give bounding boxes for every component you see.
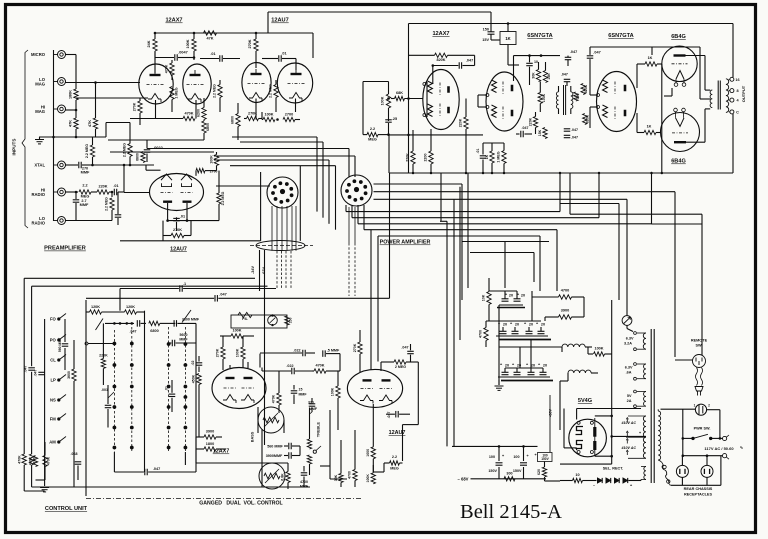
tube V7 grid (672, 63, 688, 65)
svg-text:BASS: BASS (251, 431, 255, 442)
wire V7 plate to T2 (686, 55, 706, 57)
svg-text:20: 20 (541, 323, 545, 327)
svg-text:390: 390 (576, 94, 580, 100)
socket P1 9-pin (267, 177, 298, 208)
resistor 10 rect (573, 478, 583, 482)
svg-text:5V4G: 5V4G (578, 398, 592, 404)
svg-text:20: 20 (515, 323, 519, 327)
svg-text:100K: 100K (209, 155, 213, 164)
svg-text:2 MEG: 2 MEG (395, 365, 406, 369)
svg-text:.1: .1 (183, 282, 186, 286)
svg-text:.01: .01 (210, 52, 215, 56)
resistor 470K interstage (170, 63, 174, 75)
svg-text:REAR CHASSIS: REAR CHASSIS (684, 487, 713, 491)
output transformer T2 primary (710, 90, 712, 108)
svg-text:6800: 6800 (136, 153, 140, 161)
svg-text:270K: 270K (248, 112, 257, 116)
capacitor 5 MMF (322, 350, 324, 357)
tube V10 internals (363, 379, 372, 381)
svg-text:100K: 100K (366, 474, 370, 483)
wire PA lower nest a (560, 203, 619, 205)
wire drop x441 (440, 173, 442, 221)
capacitor 100 MFD 150V bias a (498, 446, 500, 461)
svg-text:15K: 15K (538, 129, 542, 136)
power transformer T3 secondary winding 6.3V 3.2A (643, 333, 646, 349)
svg-text:1K: 1K (648, 56, 653, 60)
input jack XTAL (58, 161, 66, 169)
capacitor 3900 MMF bass (288, 452, 290, 459)
resistor 1 MEG bias (502, 151, 506, 164)
svg-text:FIL: FIL (242, 317, 248, 321)
svg-text:220K: 220K (529, 117, 533, 126)
tube V8 6B4G envelope (661, 113, 700, 152)
power switch S1 (691, 437, 694, 440)
svg-text:820K: 820K (585, 114, 589, 123)
tube V3 grid brackets (162, 183, 172, 186)
interstage transformer T1 core (563, 85, 565, 115)
tube V11 pin circles (577, 421, 580, 424)
wire selected input riser (123, 165, 125, 192)
svg-text:CL: CL (50, 358, 56, 363)
resistor 2200 V4 cathode (429, 151, 433, 164)
resistor 6800 V2 cathode (236, 114, 240, 127)
rotary switch wafer column 2 (131, 327, 133, 452)
tube V7 plate (674, 54, 686, 56)
svg-text:2.2: 2.2 (370, 127, 375, 131)
wire V9 to bass (257, 407, 259, 420)
svg-text:TREBLE: TREBLE (317, 421, 321, 437)
svg-text:Bell 2145-A: Bell 2145-A (460, 501, 562, 523)
capacitor .01 ctrl (169, 393, 176, 395)
rotary switch wafer column 4 (184, 327, 186, 452)
capacitor .10 coupling (526, 62, 533, 64)
plate supply bus top (155, 32, 313, 34)
tube V9 12AX7 envelope (212, 368, 266, 409)
capacitor 150MFD 15V and resistor 1K box (488, 31, 495, 33)
svg-text:117V AC / 50.60: 117V AC / 50.60 (704, 446, 734, 451)
capacitor 560 MMF bass (288, 443, 290, 450)
svg-text:1 MEG: 1 MEG (497, 151, 501, 162)
capacitor .25 (385, 119, 392, 121)
input bus wire (53, 50, 55, 221)
svg-text:.022: .022 (293, 349, 300, 353)
resistor 2700 divider (283, 117, 295, 121)
svg-text:AM: AM (49, 440, 56, 445)
capacitor .047 coupling (214, 295, 216, 302)
receptacle a (676, 465, 688, 477)
svg-text:2.2 MEG: 2.2 MEG (213, 84, 217, 98)
svg-text:2.2 MEG: 2.2 MEG (85, 144, 89, 158)
tube V8 plate (674, 141, 686, 143)
resistor 47K decoupling (204, 31, 217, 35)
svg-text:6.3V: 6.3V (626, 337, 634, 341)
wire filament circuit box (231, 315, 287, 328)
svg-text:10: 10 (575, 473, 579, 477)
svg-text:620: 620 (537, 469, 541, 475)
output terminal 16 (730, 77, 734, 81)
resistor 450K ctrl (197, 374, 201, 385)
svg-text:.001: .001 (101, 388, 108, 392)
cable shield ellipse (256, 241, 305, 251)
input jack MICRO (58, 51, 66, 59)
resistor 470K bias a (33, 456, 37, 467)
wire boundary power amplifier box (364, 229, 557, 231)
svg-text:3900: 3900 (206, 430, 214, 434)
resistor 120K a (90, 310, 102, 314)
svg-text:PWR SW.: PWR SW. (694, 426, 711, 430)
resistor 2 MEG V10 (394, 360, 406, 364)
svg-text:1000: 1000 (366, 449, 370, 457)
tube V11 plates (594, 418, 596, 456)
svg-text:5V: 5V (627, 394, 632, 398)
resistor 470K bias b (43, 456, 47, 467)
svg-text:CONTROL UNIT: CONTROL UNIT (45, 506, 88, 512)
interstage transformer T1 secondary (571, 92, 573, 109)
svg-text:– 68V: – 68V (458, 477, 469, 482)
svg-text:100: 100 (513, 455, 519, 459)
svg-text:FO: FO (50, 317, 57, 322)
capacitor 2.7 MMF (75, 191, 78, 194)
svg-text:.022: .022 (286, 364, 293, 368)
wire wafer bottoms (113, 452, 115, 472)
output transformer T2 core (717, 81, 719, 110)
svg-text:PO: PO (50, 338, 57, 343)
svg-text:100K: 100K (594, 347, 603, 351)
tube V7 filament (676, 71, 684, 80)
svg-text:2.2: 2.2 (82, 184, 87, 188)
svg-text:3.2A: 3.2A (624, 342, 632, 346)
svg-text:120K: 120K (126, 305, 135, 309)
remote switch cable (696, 368, 698, 386)
resistor 820K T1 a (581, 84, 585, 95)
wire bass links (261, 429, 263, 487)
wire row 140 (108, 139, 204, 141)
svg-text:47K: 47K (69, 120, 73, 127)
svg-text:12AU7: 12AU7 (170, 246, 187, 252)
capacitor 3300 MMF (173, 320, 175, 327)
resistor 10K supply (487, 292, 491, 305)
svg-text:.047: .047 (571, 128, 578, 132)
wire V5 plate top (514, 55, 561, 57)
svg-text:100K: 100K (381, 96, 385, 105)
svg-text:.01: .01 (113, 184, 118, 188)
svg-text:470K: 470K (17, 455, 21, 464)
receptacle b (701, 465, 713, 477)
svg-text:2.2 MEG: 2.2 MEG (105, 197, 109, 211)
capacitor 15 MMF (291, 390, 298, 392)
capacitor 330 MMF (309, 403, 316, 405)
resistor 2.2 MEG grid V2b (274, 85, 278, 98)
svg-text:5600: 5600 (180, 333, 188, 337)
capacitor 5600 MMF (171, 340, 173, 347)
svg-text:MEG: MEG (81, 195, 90, 199)
tube V9 internals (226, 377, 235, 379)
cable wires from socket P1 (271, 206, 273, 251)
capacitor .022 treble (291, 368, 293, 375)
wire xtal to V3 grid (82, 164, 154, 166)
svg-text:6.3V: 6.3V (625, 366, 633, 370)
svg-text:820K: 820K (584, 84, 588, 93)
resistor 470K cathode (183, 116, 195, 120)
wire 6B4G filament drops (661, 64, 663, 173)
box 100 150V (538, 453, 553, 462)
svg-text:RECEPTACLES: RECEPTACLES (684, 493, 712, 497)
resistor 3900 dropping (559, 315, 572, 319)
svg-text:270K: 270K (248, 39, 252, 48)
wire PA bottom bus (389, 172, 733, 174)
wire PA lower nest b (570, 213, 702, 215)
svg-text:270K: 270K (216, 348, 220, 357)
svg-text:100K: 100K (542, 93, 546, 102)
svg-text:.047: .047 (570, 50, 577, 54)
resistor FIL heater (238, 312, 252, 317)
svg-text:6B4G: 6B4G (671, 34, 686, 40)
ground input bus (39, 137, 41, 140)
resistor 220K hi-radio (97, 190, 109, 194)
resistor 270K divider (247, 116, 259, 120)
capacitor .047 T1 a (564, 128, 571, 130)
svg-text:.047: .047 (219, 292, 226, 296)
wire control left bus a (23, 278, 25, 454)
svg-text:410V AC: 410V AC (621, 421, 637, 425)
svg-text:1 MEG: 1 MEG (175, 87, 179, 98)
svg-text:450K: 450K (192, 374, 196, 383)
terminal 117VAC neutral (723, 454, 727, 458)
tube V2b triode internals (291, 73, 302, 75)
svg-text:LP: LP (50, 378, 56, 383)
wire wafer center (144, 323, 146, 472)
remote plug (695, 387, 703, 392)
svg-text:.5 MMF: .5 MMF (327, 349, 340, 353)
wire V3 plate drops (167, 203, 169, 221)
resistor 220K V4 grid (411, 151, 415, 164)
output terminal C (730, 110, 734, 114)
output terminal 8 (730, 89, 734, 93)
svg-text:68K: 68K (396, 91, 403, 95)
svg-text:MAG: MAG (35, 109, 45, 114)
wires into socket P2 top (147, 148, 349, 150)
resistor 2.2 MEG V10 (390, 461, 400, 465)
svg-text:100K: 100K (236, 348, 240, 357)
svg-text:470K: 470K (29, 456, 33, 465)
resistor 30K (536, 70, 540, 82)
svg-text:.02: .02 (191, 361, 195, 366)
svg-text:220K: 220K (98, 185, 107, 189)
resistor 1800 ctrl (204, 447, 216, 451)
capacitor .047 T1 mid (564, 78, 571, 80)
svg-text:.25: .25 (392, 117, 397, 121)
capacitor .02 ctrl (196, 362, 203, 364)
wire PA enclosing rectangle (409, 23, 734, 25)
selenium rectifier diodes (597, 478, 602, 483)
resistor 100K V10 b (371, 473, 375, 484)
tube V3 cathode hats (161, 174, 172, 180)
svg-text:.047: .047 (522, 126, 529, 130)
wire rect to transformer (640, 480, 642, 481)
resistor 220K right (464, 117, 468, 129)
input jack LO RADIO (58, 217, 66, 225)
tube V6 6SN7GTA envelope (597, 72, 637, 132)
wire 120K to wafer row (144, 311, 146, 324)
tube V5 internals (511, 85, 514, 92)
wire grid entry V3 (124, 192, 150, 194)
resistor 2.2 MEG V3 (217, 193, 221, 204)
svg-text:MMF: MMF (309, 407, 318, 411)
svg-text:300: 300 (506, 471, 512, 475)
tube V3 plates (163, 200, 172, 202)
resistor 6800 b (202, 121, 206, 133)
svg-text:470K: 470K (165, 64, 169, 73)
svg-text:100: 100 (489, 455, 495, 459)
svg-text:30K: 30K (532, 72, 536, 79)
svg-text:.0047: .0047 (178, 51, 188, 55)
svg-text:SW.: SW. (696, 344, 703, 348)
resistor 1K V8 grid (644, 130, 656, 134)
capacitor .022 treble top (302, 350, 304, 357)
tube V5 grid pin circles (486, 94, 489, 97)
resistor 470K bias b (29, 454, 33, 465)
svg-text:2700: 2700 (285, 113, 293, 117)
cable wires solid drop (259, 250, 261, 291)
wire sel rect bus (560, 463, 612, 465)
wire cap bank 1 (499, 304, 523, 306)
resistor 15K V5 a (543, 71, 547, 83)
svg-text:2.2 MEG: 2.2 MEG (269, 84, 273, 98)
svg-text:.01: .01 (476, 149, 480, 154)
remote switch connector (693, 355, 706, 368)
wire V8 plate to T2 (686, 141, 705, 143)
svg-text:.047: .047 (571, 135, 578, 139)
wire rectifier filament loop (577, 408, 641, 410)
svg-text:47K: 47K (207, 37, 214, 41)
input jack LO MAG (58, 78, 66, 86)
svg-text:560 MMF: 560 MMF (267, 445, 283, 449)
selector feed circle (85, 342, 88, 345)
svg-text:12AU7: 12AU7 (271, 18, 288, 24)
svg-text:.047: .047 (153, 467, 160, 471)
svg-text:820K: 820K (436, 58, 445, 62)
tube V1a envelope (139, 64, 173, 104)
resistor 6800 ctrl (149, 321, 160, 325)
capacitor .0022 (144, 149, 151, 151)
tube V6 grid pin circles (597, 94, 600, 97)
resistor 270K V10 (358, 342, 362, 354)
ganged mechanical link dash-dot line (86, 498, 362, 500)
resistor 470K treble v (277, 393, 281, 405)
svg-text:20: 20 (543, 364, 547, 368)
svg-text:20: 20 (503, 323, 507, 327)
resistor 2.2 MEG hi-radio (66, 191, 79, 193)
tube V4 internals grids (439, 83, 441, 96)
svg-text:MMF: MMF (81, 171, 90, 175)
svg-text:270K: 270K (173, 228, 182, 232)
svg-text:.047: .047 (561, 73, 568, 77)
remote receptacle J1 (661, 408, 696, 410)
svg-text:6B4G: 6B4G (671, 159, 686, 165)
svg-text:150V: 150V (513, 469, 522, 473)
capacitor .047 ctrl (136, 320, 138, 327)
resistor 2.2 MEG lo-radio (111, 191, 114, 194)
cathode bus under tubes (130, 118, 183, 120)
tube V3 grids (161, 192, 173, 194)
wire preamp out right (214, 159, 329, 161)
power transformer T3 HV center tap (626, 436, 646, 438)
capacitor bank1 plate (497, 307, 525, 309)
svg-text:410V AC: 410V AC (621, 446, 637, 450)
svg-text:REMOTE: REMOTE (691, 339, 708, 343)
output transformer T2 secondary (726, 79, 729, 113)
capacitor .1 coupling (179, 285, 181, 292)
power transformer T3 HV winding 410V AC upper (643, 416, 646, 458)
resistor 100K plate V1b (192, 39, 196, 51)
socket P2 bottom pin drops (345, 205, 347, 212)
tube V2a triode internals (251, 73, 262, 75)
svg-text:470K: 470K (184, 112, 193, 116)
resistor 100K ctrl amp (231, 334, 243, 338)
wire bus y240 (120, 240, 261, 242)
resistor 620 bias (542, 467, 546, 477)
resistor 100K meter (594, 352, 605, 356)
resistor 4700 supply (484, 328, 488, 341)
capacitor .047 V10 (407, 350, 414, 352)
tube V7 6B4G envelope (662, 46, 697, 81)
resistor 47K a (74, 118, 78, 129)
wire rectifier B plus vertical (611, 354, 613, 464)
potentiometer BASS lower (259, 463, 285, 489)
wire cathode V1a (76, 97, 149, 99)
wires preamp to PA nest (232, 136, 317, 138)
svg-text:.047: .047 (24, 366, 28, 373)
svg-text:.047: .047 (387, 412, 391, 419)
wire V4 feedback bottom (389, 134, 483, 136)
capacitor .047 wafer bottom (144, 469, 146, 476)
tube V1a triode internals (150, 74, 161, 76)
svg-text:2.2 MEG: 2.2 MEG (123, 143, 127, 157)
svg-text:20: 20 (505, 364, 509, 368)
capacitor 100 MFD 150V bias b (523, 446, 525, 461)
wire V10 loop (417, 362, 419, 425)
svg-text:470K: 470K (272, 394, 276, 403)
wire V9 plate up (229, 365, 231, 368)
svg-text:POWER AMPLIFIER: POWER AMPLIFIER (380, 240, 431, 246)
capacitor .047 top T1 (565, 56, 572, 58)
resistor 120K b (125, 310, 137, 314)
svg-text:2.2: 2.2 (392, 455, 397, 459)
resistor 1000 V10 (371, 447, 375, 459)
svg-text:MMF: MMF (299, 393, 308, 397)
input jack HI RADIO (58, 188, 66, 196)
wire control left bus b (31, 286, 33, 366)
svg-text:MAG: MAG (35, 81, 45, 86)
svg-text:150V: 150V (488, 469, 497, 473)
resistor 24K plate V1a (153, 39, 157, 51)
power transformer T3 primary winding (658, 411, 660, 460)
capacitor .0047 (174, 54, 176, 61)
svg-text:.047: .047 (130, 329, 137, 333)
resistor 68K PA (395, 96, 405, 100)
svg-text:100K: 100K (264, 113, 273, 117)
svg-text:10K: 10K (482, 294, 486, 301)
cable wires dashed (276, 251, 278, 289)
tube V4 grid pin circles (423, 83, 426, 86)
power transformer T3 secondary winding 5V 2A (644, 392, 646, 407)
svg-text:470K: 470K (47, 456, 51, 465)
resistor 2.2 MEG b (128, 144, 132, 157)
dashed cable pair right (348, 243, 350, 296)
capacitor .01 V2 (278, 55, 280, 62)
output terminal 4 (730, 98, 734, 102)
resistor 4700 V10 (353, 470, 357, 481)
